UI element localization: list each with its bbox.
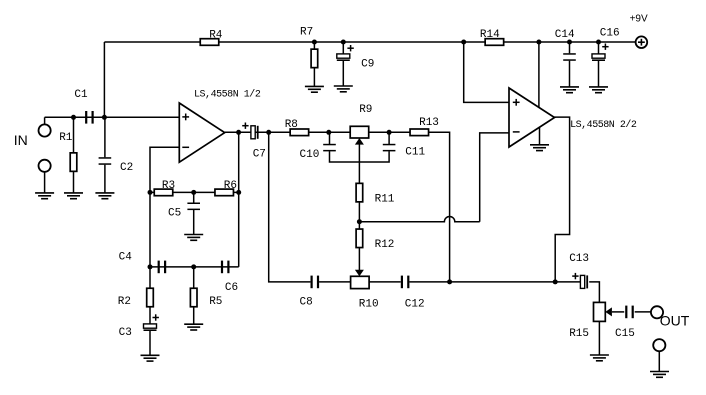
- svg-text:C8: C8: [300, 296, 313, 308]
- svg-text:R11: R11: [375, 194, 395, 206]
- svg-text:R9: R9: [359, 104, 372, 116]
- label R4: [209, 30, 223, 42]
- node junction R9 right / C11: [387, 130, 392, 135]
- label R13: [419, 117, 439, 129]
- svg-text:+9V: +9V: [630, 14, 648, 25]
- label C8: [300, 296, 313, 308]
- label R9: [359, 104, 372, 116]
- ground C5: [184, 235, 203, 241]
- svg-text:LS,4558N 1/2: LS,4558N 1/2: [194, 88, 261, 100]
- capacitor C7 electrolytic: [242, 123, 258, 139]
- label +9V: [630, 14, 648, 25]
- op-amp U2 LS,4558N 2/2: [509, 88, 555, 147]
- wire op-amp U1 output to C7 and R8: [225, 131, 291, 133]
- node junction R3 left: [148, 190, 153, 195]
- svg-text:R2: R2: [118, 296, 131, 308]
- label C10: [300, 149, 320, 161]
- ground OUT lower terminal: [650, 372, 669, 378]
- svg-text:R3: R3: [162, 180, 175, 192]
- node junction R13 column / bottom bus: [447, 279, 452, 284]
- resistor R5: [190, 267, 197, 324]
- ground C3: [141, 355, 160, 361]
- label C11: [405, 147, 425, 159]
- ground IN lower terminal: [35, 193, 54, 199]
- svg-text:C6: C6: [225, 282, 238, 294]
- ground U2: [530, 145, 549, 151]
- wire R12 wiper arrow into R10: [355, 270, 364, 277]
- capacitor C8: [311, 276, 320, 289]
- wire bottom bus C12 to C13: [409, 281, 580, 283]
- wire C15 to OUT terminal: [635, 311, 651, 313]
- label R12: [375, 239, 395, 251]
- wire op-amp U1 - input feedback: [150, 147, 179, 192]
- wire node to R3 row / C4 row left column: [149, 192, 151, 267]
- label C6: [225, 282, 238, 294]
- capacitor C5: [187, 192, 200, 234]
- label U2: [570, 119, 637, 131]
- node junction C14 on rail: [567, 40, 572, 45]
- label C5: [168, 207, 181, 219]
- capacitor C13 electrolytic: [572, 273, 588, 289]
- label R11: [375, 194, 395, 206]
- label C7: [253, 148, 266, 160]
- capacitor C14: [563, 42, 576, 87]
- svg-text:R7: R7: [300, 27, 313, 39]
- resistor R12: [356, 229, 363, 248]
- label R10: [359, 298, 379, 310]
- ground C14: [560, 87, 579, 93]
- node junction R3/R6/C5: [191, 190, 196, 195]
- node junction R6 right: [236, 190, 241, 195]
- node junction C1 right / rail drop / C2: [102, 115, 107, 120]
- svg-text:C1: C1: [74, 89, 88, 101]
- wire IN to op-amp U1 + input: [45, 116, 180, 118]
- ground R1: [64, 193, 83, 199]
- node junction U1 output: [236, 130, 241, 135]
- wire feedback row R11-R12 node to U2 - input (with hop): [359, 217, 479, 222]
- capacitor C2: [99, 117, 112, 193]
- svg-text:C10: C10: [300, 149, 320, 161]
- resistor R11: [356, 183, 363, 202]
- wire R9 wiper to R11 to R12 column: [358, 144, 360, 271]
- terminal OUT: [651, 306, 663, 318]
- wire U2 - input riser: [480, 133, 509, 222]
- node junction R11/R12 feedback: [357, 219, 362, 224]
- svg-text:C5: C5: [168, 207, 181, 219]
- label R15: [569, 328, 589, 340]
- ground R5: [184, 324, 203, 330]
- node junction C16 on rail: [596, 40, 601, 45]
- node IN lower terminal: [39, 160, 51, 193]
- svg-text:R12: R12: [375, 239, 395, 251]
- capacitor C4: [158, 261, 167, 274]
- label C16: [600, 27, 620, 39]
- capacitor C15: [625, 306, 634, 319]
- ground C2: [95, 193, 114, 199]
- capacitor C3 electrolytic: [144, 314, 159, 355]
- label R7: [300, 27, 313, 39]
- node junction C4 left: [148, 264, 153, 269]
- resistor R4: [200, 39, 219, 46]
- resistor R3: [154, 189, 173, 196]
- svg-text:R8: R8: [285, 119, 298, 131]
- node junction R1/C1: [71, 115, 76, 120]
- svg-text:C9: C9: [361, 59, 374, 71]
- node junction U2 output / bottom bus: [553, 279, 558, 284]
- node junction R9 left / C10: [326, 130, 331, 135]
- wire C7 node down to bottom bus: [269, 132, 311, 282]
- resistor R7: [311, 42, 318, 86]
- label C4: [119, 252, 133, 264]
- resistor R6: [215, 189, 234, 196]
- label R5: [209, 296, 222, 308]
- capacitor C1: [85, 111, 94, 124]
- svg-text:C13: C13: [569, 253, 589, 265]
- label C12: [405, 298, 425, 310]
- label R6: [224, 180, 237, 192]
- svg-text:C15: C15: [615, 328, 635, 340]
- node junction C4/C6/R5: [191, 264, 196, 269]
- svg-text:R5: R5: [209, 296, 222, 308]
- ground R15: [590, 355, 609, 361]
- wire rail power stub to U2: [538, 42, 540, 108]
- ground C16: [589, 87, 608, 93]
- wire R8 to R9 to R13: [309, 131, 411, 133]
- label OUT: [660, 313, 690, 329]
- svg-text:IN: IN: [14, 132, 28, 148]
- svg-text:R4: R4: [209, 30, 223, 42]
- wire C4 C6 row: [150, 266, 239, 268]
- wire C10 stub: [329, 132, 331, 144]
- wire C10 C11 bottom bar: [330, 151, 390, 162]
- node junction rail / U2 power stub: [536, 40, 541, 45]
- node junction rail / U2 + riser: [461, 40, 466, 45]
- svg-text:OUT: OUT: [660, 313, 690, 329]
- svg-text:C2: C2: [120, 162, 133, 174]
- svg-text:R15: R15: [569, 328, 589, 340]
- svg-text:C4: C4: [119, 252, 133, 264]
- capacitor C11: [383, 144, 396, 152]
- resistor R2: [147, 267, 154, 324]
- label U1: [194, 88, 261, 100]
- wire bottom bus C8 to R10: [319, 281, 351, 283]
- label R2: [118, 296, 131, 308]
- svg-text:LS,4558N 2/2: LS,4558N 2/2: [570, 119, 637, 131]
- label IN: [14, 132, 28, 148]
- label C3: [119, 327, 132, 339]
- label C9: [361, 59, 374, 71]
- capacitor C16 electrolytic: [592, 42, 609, 87]
- wire R15 to ground: [598, 321, 600, 355]
- svg-text:C12: C12: [405, 298, 425, 310]
- node junction R7 on rail: [312, 40, 317, 45]
- label C14: [555, 29, 575, 41]
- capacitor C6: [221, 261, 230, 274]
- svg-text:R13: R13: [419, 117, 439, 129]
- label R1: [59, 132, 73, 144]
- svg-text:R1: R1: [59, 132, 73, 144]
- wire U2 output jog to bottom bus: [553, 117, 569, 282]
- label C1: [74, 89, 88, 101]
- resistor R1: [70, 117, 77, 193]
- wire R3 R6 row: [150, 191, 239, 193]
- node junction C7 right: [266, 130, 271, 135]
- svg-text:C7: C7: [253, 148, 266, 160]
- terminal +9V supply: [636, 36, 648, 48]
- op-amp U1 LS,4558N 1/2: [179, 103, 224, 162]
- label R3: [162, 180, 175, 192]
- resistor R8: [290, 129, 309, 136]
- wire IN terminal stem: [44, 117, 46, 125]
- label C15: [615, 328, 635, 340]
- wire C13 to R15: [589, 282, 599, 303]
- resistor R13: [410, 129, 429, 136]
- svg-text:R10: R10: [359, 298, 379, 310]
- resistor R14: [485, 39, 504, 46]
- label R8: [285, 119, 298, 131]
- wire op1 output column to R6 and C6: [238, 132, 240, 267]
- label C13: [569, 253, 589, 265]
- wire top supply rail: [104, 41, 635, 43]
- wire C11 stub: [388, 132, 390, 144]
- ground R7: [305, 86, 324, 92]
- wire U2 ground stub: [539, 127, 541, 145]
- label R14: [480, 29, 500, 41]
- svg-text:R14: R14: [480, 29, 500, 41]
- wire R13 right down to bottom bus: [428, 132, 449, 282]
- terminal IN top: [39, 124, 51, 136]
- wire R15 wiper to C15: [612, 311, 624, 313]
- wire rail left drop to C1 node: [103, 42, 105, 117]
- potentiometer R15: [594, 302, 612, 321]
- capacitor C10: [323, 144, 336, 152]
- wire bottom bus R10 to C12: [369, 281, 401, 283]
- node OUT lower terminal: [653, 339, 665, 371]
- node junction C9 on rail: [341, 40, 346, 45]
- label C2: [120, 162, 133, 174]
- svg-text:C14: C14: [555, 29, 575, 41]
- capacitor C9 electrolytic: [337, 42, 354, 86]
- ground C9: [334, 86, 353, 92]
- svg-text:C16: C16: [600, 27, 620, 39]
- svg-text:R6: R6: [224, 180, 237, 192]
- svg-text:C11: C11: [405, 147, 425, 159]
- potentiometer R10: [351, 276, 370, 288]
- potentiometer R9: [350, 126, 369, 144]
- capacitor C12: [401, 276, 410, 289]
- wire rail to U2 + input: [464, 42, 509, 102]
- svg-text:C3: C3: [119, 327, 132, 339]
